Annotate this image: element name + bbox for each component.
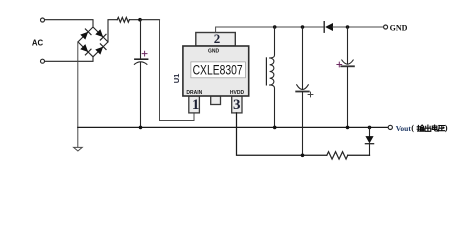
ground bbox=[74, 147, 83, 151]
label: C2 plus sign bbox=[308, 92, 313, 97]
glyph 输 bbox=[417, 125, 424, 131]
label (输出电压) hand-drawn glyphs bbox=[411, 123, 448, 133]
resistor R1 bbox=[117, 17, 129, 22]
node: C1 bottom junction bbox=[139, 126, 143, 130]
node: C3 bottom junction bbox=[346, 126, 350, 130]
wire: rail A (Vout/bottom rail) bbox=[78, 126, 388, 128]
svg-text:HVDD: HVDD bbox=[230, 90, 245, 96]
terminal: GND bbox=[384, 25, 388, 29]
svg-text:2: 2 bbox=[214, 31, 221, 46]
wire: bridge right vertex up to top rail bbox=[108, 20, 117, 42]
capacitor C3 (output electrolytic) bbox=[341, 27, 354, 127]
inductor L1 bbox=[266, 27, 274, 127]
wire: top rail from D5 to GND terminal bbox=[333, 26, 384, 28]
wire: AC bottom terminal to bridge bottom vertex bbox=[45, 57, 93, 62]
terminal: AC input bottom bbox=[41, 59, 45, 63]
svg-text:1: 1 bbox=[192, 97, 200, 113]
part number box bbox=[191, 62, 246, 78]
pin 2 tab bbox=[196, 33, 236, 47]
wire: AC top terminal to bridge top vertex bbox=[45, 20, 93, 27]
wire: bridge left vertex down to ground bbox=[77, 42, 79, 147]
terminal: AC input top bbox=[41, 18, 45, 22]
diode D6 (shunt diode Vout rail to HVDD rail) bbox=[365, 127, 373, 155]
glyph 出 bbox=[425, 125, 431, 131]
IC U1 CXLE8307 bbox=[172, 31, 249, 113]
node: C2 bottom junction bbox=[301, 154, 305, 158]
bridge rectifier diamond outline bbox=[78, 27, 108, 57]
wire: drain path down and to pin 1 bbox=[160, 20, 195, 121]
wire: top rail from R1 to drain corner bbox=[129, 19, 159, 21]
svg-text:): ) bbox=[445, 123, 448, 133]
node: junction top of C1 bbox=[138, 18, 142, 22]
svg-text:GND: GND bbox=[390, 24, 408, 33]
svg-text:3: 3 bbox=[233, 97, 241, 113]
svg-text:Vout: Vout bbox=[396, 124, 412, 133]
capacitor C1 (input electrolytic) bbox=[134, 20, 147, 128]
bridge diode D3 (bottom-left edge) bbox=[80, 44, 91, 55]
bridge diode D2 (top-right edge) bbox=[95, 29, 106, 40]
node: inductor bottom junction bbox=[273, 126, 277, 130]
svg-text:(: ( bbox=[411, 123, 414, 133]
node: inductor top junction bbox=[273, 25, 277, 29]
body bbox=[183, 46, 249, 96]
wire: pin 2 stub and top-right GND rail bbox=[216, 27, 325, 33]
pin 1 tab bbox=[189, 96, 200, 113]
pin 3 tab bbox=[232, 96, 242, 113]
glyph 压 bbox=[438, 126, 445, 132]
terminal: Vout bbox=[388, 125, 392, 129]
node: C2 top junction bbox=[301, 25, 305, 29]
svg-text:DRAIN: DRAIN bbox=[186, 90, 202, 96]
glyph 电 bbox=[432, 125, 437, 131]
resistor R2 bbox=[327, 152, 348, 159]
svg-text:CXLE8307: CXLE8307 bbox=[193, 63, 243, 78]
node: C3 top junction bbox=[346, 25, 350, 29]
wire: rail B from R2 to D6 bbox=[348, 154, 370, 156]
diode D5 (on GND rail, pointing left) bbox=[324, 22, 333, 33]
bridge diode D1 (top-left edge) bbox=[80, 29, 91, 40]
svg-text:U1: U1 bbox=[172, 74, 181, 84]
svg-text:AC: AC bbox=[32, 38, 44, 47]
label: C3 plus sign bbox=[337, 62, 342, 67]
middle tab bbox=[211, 96, 221, 105]
node: D6 top junction bbox=[368, 126, 372, 130]
svg-text:GND: GND bbox=[208, 49, 220, 55]
wire: rail B (HVDD rail) from pin 3 bbox=[237, 113, 327, 155]
label: C1 plus sign bbox=[142, 51, 147, 56]
bridge diode D4 (bottom-right edge) bbox=[95, 44, 106, 55]
capacitor C2 (HVDD bypass) bbox=[296, 27, 309, 155]
